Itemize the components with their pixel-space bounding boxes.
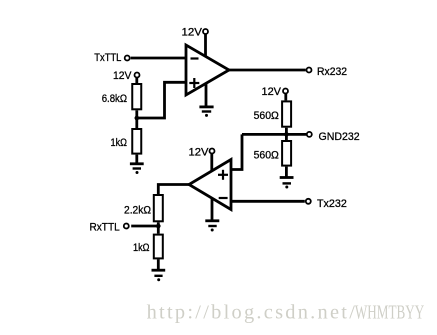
- label TxTTL: [94, 52, 121, 64]
- terminal 12V U2 supply: [210, 149, 215, 154]
- svg-text:Tx232: Tx232: [317, 198, 347, 210]
- label RxTTL: [90, 222, 120, 234]
- wire R5 bottom to R6 top: [157, 222, 160, 233]
- wire U2 ground pin: [211, 196, 214, 221]
- junction GND232 node: [284, 132, 289, 137]
- wire TxTTL to U1 inverting input: [131, 57, 186, 60]
- resistor R4 560 body: [282, 141, 291, 166]
- wire 12V to R3 top: [284, 94, 287, 100]
- svg-text:TxTTL: TxTTL: [94, 52, 121, 64]
- wire U1 output to Rx232: [228, 69, 306, 72]
- terminal Tx232: [306, 199, 311, 204]
- ground U2: [205, 221, 219, 232]
- resistor R5 2.2k body: [154, 195, 163, 221]
- terminal RxTTL: [124, 224, 129, 229]
- label 12V divider R1: [113, 70, 132, 82]
- label 1kOhm R2: [111, 137, 128, 149]
- wire R6 bottom to ground: [157, 259, 160, 270]
- label 12V U2 supply: [189, 146, 210, 158]
- ground divider1: [130, 164, 144, 174]
- wire 12V to R1 top: [135, 78, 138, 83]
- resistor R1 6.8k body: [132, 84, 141, 109]
- wire U2 output to R5 top: [158, 185, 190, 195]
- wire R1 bottom to R2 top: [135, 110, 138, 128]
- label 12V U1 supply: [182, 26, 203, 38]
- wire GND232 node down to U2 noninverting input: [231, 134, 242, 169]
- label 2.2kOhm R5: [124, 204, 151, 216]
- junction divider1 node: [135, 116, 140, 121]
- resistor R2 1k body: [132, 129, 141, 154]
- svg-text:RxTTL: RxTTL: [90, 222, 120, 234]
- resistor R6 1k body: [154, 235, 163, 259]
- wire U2 inverting input to Tx232: [231, 200, 305, 203]
- label 560Ohm R3: [254, 110, 279, 122]
- svg-text:12V: 12V: [182, 26, 203, 38]
- svg-text:1kΩ: 1kΩ: [111, 137, 128, 149]
- svg-text:12V: 12V: [262, 86, 282, 98]
- label GND232: [319, 131, 360, 143]
- ground U1: [199, 107, 213, 117]
- junction RxTTL node: [156, 224, 161, 229]
- svg-text:1kΩ: 1kΩ: [133, 242, 150, 254]
- watermark: [147, 302, 425, 324]
- svg-text:560Ω: 560Ω: [254, 110, 279, 122]
- op-amp U2: [189, 160, 231, 210]
- svg-text:http://blog.csdn.net/: http://blog.csdn.net/: [147, 302, 356, 324]
- wire R2 bottom to ground: [135, 155, 138, 164]
- wire R4 bottom to ground: [285, 167, 288, 178]
- label Tx232: [317, 198, 347, 210]
- wire RxTTL to divider node: [131, 225, 158, 228]
- svg-text:GND232: GND232: [319, 131, 360, 143]
- terminal 12V U1 supply: [203, 29, 208, 34]
- svg-text:Rx232: Rx232: [317, 66, 347, 78]
- label 1kOhm R6: [133, 242, 150, 254]
- ground 560 divider: [280, 178, 294, 189]
- terminal GND232: [307, 132, 312, 137]
- wire 12V supply to U1 top edge: [204, 35, 207, 58]
- ground divider2: [152, 270, 166, 281]
- svg-text:WHMTBYY: WHMTBYY: [355, 302, 424, 324]
- wire R3 bottom to R4 top: [285, 128, 288, 140]
- terminal 12V divider R1: [135, 73, 140, 78]
- terminal Rx232: [307, 68, 312, 73]
- svg-text:12V: 12V: [113, 70, 132, 82]
- wire GND232 node horizontal: [242, 133, 307, 136]
- label 6.8kOhm: [102, 93, 127, 105]
- label 12V 560 divider: [262, 86, 282, 98]
- wire 12V supply to U2 top edge: [210, 154, 213, 172]
- wire divider node to U1 noninverting input: [137, 82, 186, 118]
- terminal TxTTL: [125, 56, 130, 61]
- label 560Ohm R4: [254, 150, 279, 162]
- svg-text:560Ω: 560Ω: [254, 150, 279, 162]
- svg-text:2.2kΩ: 2.2kΩ: [124, 204, 151, 216]
- label Rx232: [317, 66, 347, 78]
- terminal 12V 560 divider: [283, 89, 288, 94]
- resistor R3 560 body: [282, 101, 291, 126]
- wire U1 ground pin: [205, 82, 208, 107]
- svg-text:12V: 12V: [189, 146, 210, 158]
- op-amp U1: [186, 45, 229, 95]
- svg-text:6.8kΩ: 6.8kΩ: [102, 93, 127, 105]
